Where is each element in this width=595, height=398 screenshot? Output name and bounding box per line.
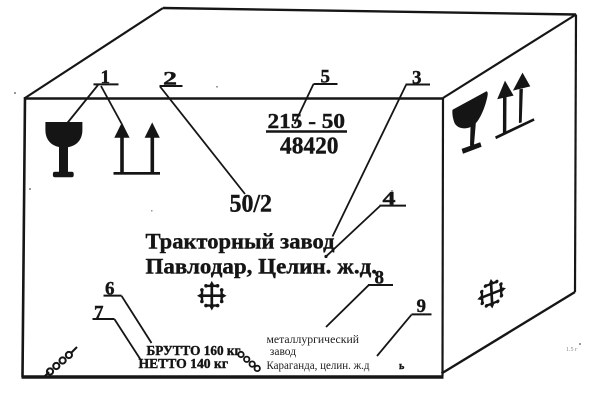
fragile glass symbol on front face bbox=[45, 122, 82, 177]
svg-text:металлургический: металлургический bbox=[267, 334, 360, 346]
svg-text:1.5 г: 1.5 г bbox=[566, 347, 578, 353]
callout 2 underline bbox=[160, 85, 183, 87]
this-way-up arrows symbol on right face bbox=[495, 73, 535, 140]
box right face top edge bbox=[443, 15, 576, 99]
svg-text:ь: ь bbox=[399, 361, 405, 372]
box front face bottom edge bbox=[22, 375, 444, 379]
leader from 1 to glass bbox=[65, 85, 98, 126]
leader 4 end dot bbox=[324, 255, 327, 258]
box top face back edge bbox=[163, 8, 576, 15]
sling chain symbol bottom left bbox=[44, 347, 78, 378]
svg-text:215 - 50: 215 - 50 bbox=[268, 109, 346, 133]
leader from 1 to arrows bbox=[101, 86, 122, 124]
svg-text:50/2: 50/2 bbox=[230, 191, 273, 218]
callout 4 underline bbox=[380, 205, 407, 207]
this-way-up arrows symbol on front face bbox=[114, 122, 161, 174]
leader from 6 to gross weight bbox=[122, 296, 152, 343]
handling cross symbol on right face bbox=[477, 273, 507, 314]
leader from 2 to 50/2 bbox=[160, 87, 245, 195]
callout 8 underline bbox=[368, 284, 393, 286]
box front face left edge bbox=[23, 97, 26, 377]
svg-text:48420: 48420 bbox=[280, 133, 339, 160]
callout 6 underline bbox=[104, 295, 122, 297]
sling chain symbol near weight text bbox=[238, 352, 260, 371]
svg-text:7: 7 bbox=[94, 303, 104, 324]
box top face left edge bbox=[25, 8, 163, 98]
leader from 9 to consignor station bbox=[377, 315, 412, 356]
callout 9 underline bbox=[412, 313, 432, 315]
leader from 7 to net weight bbox=[115, 319, 141, 359]
handling cross symbol on front face bbox=[197, 281, 227, 311]
leader from 4 to station text bbox=[326, 206, 380, 257]
scan specks bbox=[14, 86, 581, 345]
svg-text:завод: завод bbox=[270, 346, 296, 358]
box right face bottom edge bbox=[442, 292, 576, 374]
fraction bar bbox=[266, 130, 347, 132]
svg-text:Караганда, целин. ж.д: Караганда, целин. ж.д bbox=[267, 360, 370, 372]
svg-text:Тракторный завод: Тракторный завод bbox=[146, 229, 335, 254]
leader from 5 to fraction bbox=[295, 84, 314, 124]
callout 5 underline bbox=[314, 83, 338, 85]
callout 7 underline bbox=[93, 318, 115, 320]
box front face top edge bbox=[24, 97, 444, 100]
box front face right edge bbox=[441, 98, 444, 376]
svg-text:Павлодар, Целин. ж.д.: Павлодар, Целин. ж.д. bbox=[146, 254, 378, 279]
leader from 8 to consignor text bbox=[326, 285, 369, 327]
callout 1 underline bbox=[94, 83, 119, 85]
svg-text:НЕТТО 140 кг: НЕТТО 140 кг bbox=[139, 356, 229, 371]
leader from 3 to consignee text bbox=[333, 85, 407, 237]
callout 3 underline bbox=[406, 84, 431, 86]
fragile glass symbol on right face bbox=[452, 91, 487, 153]
box right face right edge bbox=[575, 15, 576, 293]
